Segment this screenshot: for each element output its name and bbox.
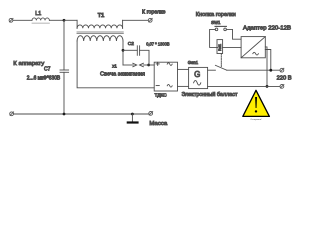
svg-text:Кнопка горелки: Кнопка горелки [196,12,236,18]
ground symbol [128,114,138,123]
svg-text:2...6 мкФ*630В: 2...6 мкФ*630В [27,75,61,81]
svg-text:Rel1: Rel1 [218,44,222,51]
svg-text:Электронный балласт: Электронный балласт [182,91,239,98]
secondary winding [77,36,123,41]
node: adapter lower to 220 [266,85,269,88]
svg-text:Адаптер 220-12В: Адаптер 220-12В [243,25,291,31]
svg-text:220 В: 220 В [277,76,293,82]
svg-text:С7: С7 [44,67,51,73]
label minus [156,85,159,87]
sine bottom ТДКС [167,84,172,87]
terminal top-left (К аппарату) [9,18,13,22]
terminal 220V upper [280,68,284,72]
wires ТДКС to Gen1 [178,68,189,70]
adapter 220-12V box [241,37,265,58]
sine G box [194,81,201,86]
node: C2 tap [122,49,125,52]
svg-text:C2: C2 [128,41,134,47]
primary left riser [76,20,78,28]
primary winding [77,25,123,28]
core lines [77,31,123,33]
node: ground junction [131,113,134,116]
wire L1 to junction [49,19,64,21]
wire secondary right leg [122,41,124,65]
terminal Масса [149,112,153,116]
bottom wire [14,113,149,115]
warning triangle [243,90,270,121]
label + [156,62,159,65]
wire terminal to L1 [13,19,32,21]
wire G bottom to 220V [208,85,280,87]
wire contact to 220V [227,69,280,71]
node: adapter upper to 220 [269,69,272,72]
svg-text:0,07 * 1300В: 0,07 * 1300В [146,42,169,47]
svg-text:Масса: Масса [149,121,168,127]
wire G to relay contact [208,69,216,71]
svg-text:ТДКС: ТДКС [155,92,168,98]
generator Gen1 box [189,67,208,88]
sine top ТДКС [167,63,172,66]
svg-text:T1: T1 [98,13,105,19]
node: top junction to C7 [63,19,66,22]
wire secondary left leg [77,41,154,88]
flyback ТДКС box [154,62,177,91]
wire C7 top [63,20,65,70]
transformer T1 [77,20,123,41]
terminal К горелке [148,18,152,22]
relay coil Rel1 [217,40,241,54]
svg-text:Свеча зажигания: Свеча зажигания [100,72,145,78]
relay contact Rel1.1 [215,65,226,70]
svg-text:SW1: SW1 [211,20,221,25]
capacitor C7 [60,70,69,72]
push button SW1 [210,26,242,47]
wire junction to transformer primary [64,19,77,21]
svg-text:L1: L1 [35,11,41,17]
svg-text:Gen1: Gen1 [188,60,199,65]
svg-text:К горелке: К горелке [142,10,166,16]
svg-text:К аппарату: К аппарату [13,61,44,67]
dashed mechanical link [220,54,222,67]
svg-text:x1: x1 [112,63,117,68]
sine adapter [253,52,259,55]
terminal bottom-left (К аппарату) [10,112,14,116]
inductor L1 [32,18,49,23]
node: bottom junction C7 [63,113,66,116]
capacitor C2 branch [123,46,149,65]
svg-text:Осторожно!: Осторожно! [250,119,262,121]
wires adapter to 220V lines [265,47,267,87]
wire primary to burner terminal [123,19,149,21]
spark gap X1 [123,63,154,66]
terminal 220V lower [280,85,284,89]
wire C7 bottom [63,72,65,114]
primary right riser [122,20,124,28]
node: spark gap right junction [147,64,150,67]
svg-text:G: G [194,70,200,79]
